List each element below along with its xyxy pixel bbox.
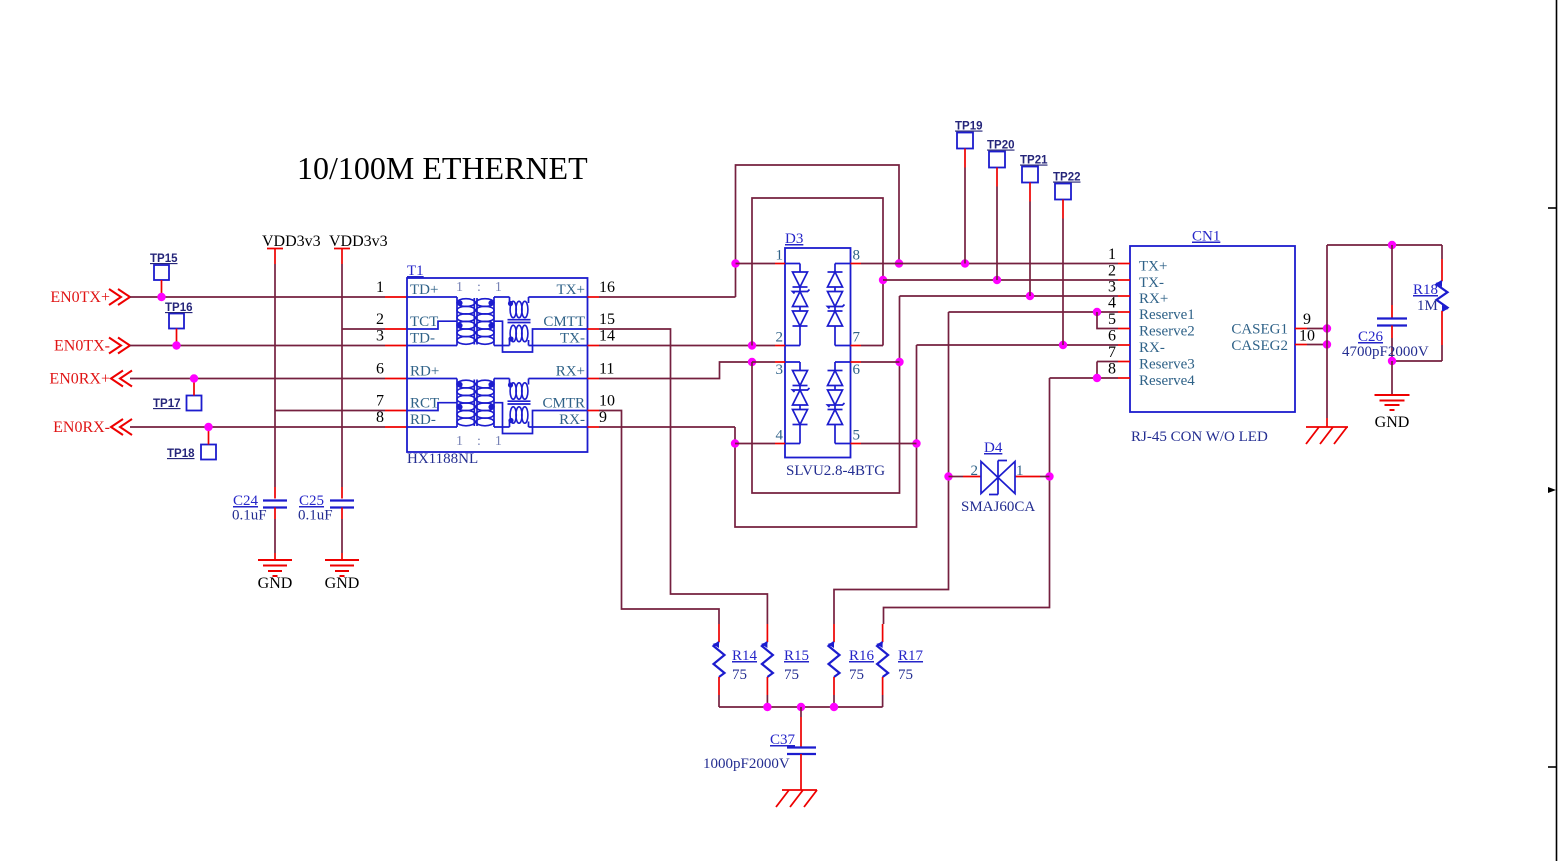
pin 6 stub T1	[385, 378, 407, 380]
junction C37 top	[797, 703, 805, 711]
svg-text:R16: R16	[849, 648, 875, 664]
svg-text:3: 3	[1108, 279, 1116, 296]
wire CASEG1	[1307, 328, 1327, 330]
TP15 stub	[161, 280, 163, 297]
svg-text:75: 75	[732, 667, 747, 683]
TP19 stub	[964, 149, 966, 168]
svg-text:TX-: TX-	[560, 331, 585, 347]
wire CASEG2	[1307, 344, 1327, 346]
wire to D3 pin1	[736, 263, 776, 265]
wire D4 pin2 net down to R16	[834, 312, 949, 624]
svg-text:1M: 1M	[1417, 298, 1438, 314]
TP18 stub	[208, 427, 210, 445]
svg-text:RX+: RX+	[556, 364, 585, 380]
svg-text:R18: R18	[1413, 282, 1438, 298]
wire C26 to bottom	[1391, 338, 1393, 361]
pin 4 stub CN1	[1118, 311, 1130, 313]
pin 2 stub D4	[963, 476, 981, 478]
wire RX- to CN1 pin6	[917, 344, 1119, 346]
svg-text:4: 4	[776, 428, 784, 444]
T1 centre tap jog	[494, 321, 588, 352]
svg-text:TCT: TCT	[410, 314, 438, 330]
wire from D4 pin1	[1040, 476, 1050, 478]
R17 top stub	[882, 624, 884, 642]
pin 5 stub CN1	[1118, 328, 1130, 330]
T1 core	[474, 298, 477, 345]
pin 2 stub CN1	[1118, 279, 1130, 281]
wire TX+ loop over D3	[736, 165, 900, 297]
junction TX+ loop / CN1 row	[895, 259, 903, 267]
phase dots	[457, 382, 462, 387]
svg-text:Reserve4: Reserve4	[1139, 373, 1195, 389]
ground stub	[274, 553, 276, 560]
svg-text:TP17: TP17	[153, 398, 181, 410]
wire C25 to ground	[341, 519, 343, 553]
pin stub T1 right	[588, 426, 600, 428]
pin stub T1 right	[588, 328, 600, 330]
wire EN0RX- row	[130, 426, 385, 428]
svg-text:16: 16	[599, 279, 615, 296]
svg-text:75: 75	[784, 667, 799, 683]
wire TP21 down	[1029, 202, 1031, 297]
svg-text:TP18: TP18	[167, 448, 195, 460]
port arrow EN0TX+	[109, 289, 130, 305]
svg-text:8: 8	[376, 409, 384, 426]
test point TP21	[1022, 167, 1038, 183]
capacitor C25 top stub	[341, 487, 343, 499]
svg-text:4: 4	[1108, 295, 1116, 312]
junction TP19	[961, 259, 969, 267]
wire D4 pin1 net down to R17	[884, 378, 1050, 624]
chassis ground symbol right	[1306, 427, 1348, 444]
wire resistor bottom bus	[719, 706, 883, 708]
TVS array D3 body	[785, 248, 851, 458]
wire D3 pin6	[861, 361, 900, 363]
wire to D4 pin2	[949, 476, 964, 478]
port arrow EN0RX+	[111, 371, 132, 387]
svg-text:1 : 1: 1 : 1	[456, 280, 502, 295]
junction R16 bottom	[830, 703, 838, 711]
R17 bottom wire	[882, 695, 884, 707]
wire to GND	[1391, 361, 1393, 395]
svg-text:10/100M ETHERNET: 10/100M ETHERNET	[297, 150, 588, 186]
wire RX+ loop under D3	[752, 296, 900, 493]
svg-text:TD-: TD-	[410, 331, 435, 347]
svg-text:EN0RX-: EN0RX-	[53, 419, 110, 436]
T1 winding right	[494, 297, 510, 346]
junction TP16/EN0TX-	[172, 341, 180, 349]
R17 bottom stub	[882, 677, 884, 695]
D4 symbol	[981, 461, 1015, 495]
connector CN1 body	[1130, 246, 1295, 412]
wire RX- from pin9	[599, 426, 735, 428]
test point TP15	[154, 265, 169, 280]
wire VDD3v3 #1 vertical	[274, 264, 276, 487]
pin stub D3 right	[851, 263, 862, 265]
junction pin8 tie	[1093, 374, 1101, 382]
pin 2 stub T1	[385, 328, 407, 330]
junction TX+ / D3 pin1 row	[731, 259, 739, 267]
wire RX- loop under D3	[735, 345, 917, 527]
pin stub T1 right	[588, 296, 600, 298]
pin 7 stub CN1	[1118, 361, 1130, 363]
wire R18 bottom	[1441, 345, 1443, 361]
pin stub T1 right	[588, 345, 600, 347]
wire EN0RX+ row	[130, 378, 385, 380]
test point TP16	[169, 314, 184, 329]
svg-text:CASEG1: CASEG1	[1231, 322, 1288, 338]
svg-text:RX-: RX-	[559, 412, 585, 428]
ground symbol GND right	[1375, 395, 1410, 410]
pin stub T1 right	[588, 410, 600, 412]
svg-text:10: 10	[1299, 328, 1315, 345]
wire D3 pin8 to CN1 pin1	[861, 263, 1118, 265]
junction RX+ / D3 pin3	[748, 358, 756, 366]
svg-text:C37: C37	[770, 732, 796, 748]
junction TP18/EN0RX-	[204, 423, 212, 431]
R15 top stub	[766, 624, 768, 642]
junction D4 pin1	[1045, 472, 1053, 480]
capacitor C26 top stub	[1391, 305, 1393, 318]
svg-text:1: 1	[376, 279, 384, 296]
junction CASEG1	[1323, 324, 1331, 332]
pin 1 stub T1	[385, 296, 407, 298]
svg-text:VDD3v3: VDD3v3	[262, 233, 321, 250]
svg-text:Reserve3: Reserve3	[1139, 357, 1195, 373]
wire pin5 tie	[1097, 312, 1118, 329]
wire EN0TX- row	[130, 345, 385, 347]
capacitor C37 bottom stub	[800, 754, 802, 790]
junction CASEG2	[1323, 340, 1331, 348]
svg-text:0.1uF: 0.1uF	[298, 508, 333, 524]
wire CN1 pin8	[1050, 377, 1119, 379]
svg-text:RJ-45 CON W/O LED: RJ-45 CON W/O LED	[1131, 429, 1268, 445]
svg-text:TD+: TD+	[410, 282, 438, 298]
svg-text:R14: R14	[732, 648, 758, 664]
svg-text:TX+: TX+	[557, 282, 585, 298]
wire pin7/pin8 tie	[1096, 362, 1098, 379]
chassis stub	[1326, 418, 1328, 427]
ground symbol GND	[258, 560, 292, 576]
svg-text:1 : 1: 1 : 1	[456, 434, 502, 449]
svg-text:2: 2	[971, 463, 979, 479]
svg-text:RCT: RCT	[410, 396, 439, 412]
svg-text:7: 7	[853, 330, 861, 346]
junction R15 bottom	[763, 703, 771, 711]
border tick bottom	[1548, 766, 1556, 768]
svg-text:0.1uF: 0.1uF	[232, 508, 267, 524]
R16 bottom stub	[833, 677, 835, 695]
capacitor C37	[787, 748, 816, 755]
capacitor C26 bottom stub	[1391, 326, 1393, 339]
svg-text:7: 7	[1108, 344, 1116, 361]
capacitor C24 bottom stub	[274, 508, 276, 520]
svg-text:75: 75	[849, 667, 864, 683]
border tick top	[1548, 207, 1556, 209]
wire case net top	[1327, 244, 1442, 246]
power symbol VDD3v3 #2	[334, 249, 350, 265]
phase dots	[457, 300, 462, 305]
TP20 stub	[996, 168, 998, 187]
wire CMTR to R14	[599, 411, 719, 625]
svg-text:6: 6	[1108, 328, 1116, 345]
R16 top stub	[833, 624, 835, 642]
chassis ground symbol bottom	[776, 790, 817, 807]
svg-text:2: 2	[376, 311, 384, 328]
D3 diodes top-left	[785, 264, 851, 346]
wire TP20 down	[996, 187, 998, 281]
svg-text:TP20: TP20	[987, 140, 1015, 152]
svg-text:6: 6	[376, 361, 384, 378]
svg-text:1000pF2000V: 1000pF2000V	[703, 756, 790, 772]
svg-text:10: 10	[599, 393, 615, 410]
R16 bottom wire	[833, 695, 835, 707]
junction D4 pin2	[944, 472, 952, 480]
junction TP21	[1026, 292, 1034, 300]
svg-text:CASEG2: CASEG2	[1231, 338, 1288, 354]
svg-text:TP15: TP15	[150, 253, 178, 265]
wire to D3 pin4	[735, 443, 775, 445]
svg-text:R17: R17	[898, 648, 924, 664]
svg-text:14: 14	[599, 328, 615, 345]
ground symbol GND	[325, 560, 359, 576]
svg-text:9: 9	[599, 409, 607, 426]
test point TP22	[1055, 184, 1071, 200]
pin stub D3 right	[851, 361, 862, 363]
svg-text:1: 1	[1108, 246, 1116, 263]
svg-text:TX-: TX-	[1139, 275, 1164, 291]
wire TCT to VDD3v3	[342, 328, 385, 330]
R14 top stub	[718, 624, 720, 642]
pin 7 stub T1	[385, 410, 407, 412]
capacitor C25 bottom stub	[341, 508, 343, 520]
T1 winding left (TD+/TCT/TD-)	[407, 297, 457, 346]
R15 bottom stub	[766, 677, 768, 695]
svg-text:TP19: TP19	[955, 121, 983, 133]
svg-text:GND: GND	[1375, 414, 1410, 431]
svg-text:TX+: TX+	[1139, 259, 1167, 275]
T1 centre tap jog	[494, 403, 588, 434]
svg-text:75: 75	[898, 667, 913, 683]
svg-text:RX+: RX+	[1139, 291, 1168, 307]
test point TP18	[201, 445, 216, 460]
svg-text:SLVU2.8-4BTG: SLVU2.8-4BTG	[786, 463, 885, 479]
svg-text:TP21: TP21	[1020, 155, 1048, 167]
svg-text:4700pF2000V: 4700pF2000V	[1342, 344, 1429, 360]
T1 common-mode choke	[508, 379, 588, 428]
TP21 stub	[1029, 183, 1031, 202]
capacitor C25	[330, 501, 354, 508]
test point TP20	[989, 152, 1005, 168]
wire case net vertical	[1326, 245, 1328, 418]
capacitor C24	[263, 501, 287, 508]
pin 8 stub T1	[385, 426, 407, 428]
svg-text:11: 11	[599, 361, 614, 378]
wire to R18	[1441, 245, 1443, 259]
R18 bottom stub	[1441, 311, 1443, 345]
svg-text:6: 6	[853, 362, 861, 378]
svg-text:EN0TX-: EN0TX-	[54, 338, 110, 355]
svg-text:C26: C26	[1358, 329, 1384, 345]
junction TP17/EN0RX+	[190, 374, 198, 382]
svg-text:GND: GND	[325, 575, 360, 592]
pin 6 stub CN1	[1118, 344, 1130, 346]
wire TX- to D3 pin2	[599, 345, 775, 347]
svg-text:CMTR: CMTR	[542, 396, 585, 412]
wire TX- to CN1 pin2	[883, 279, 1118, 281]
wire to C26	[1391, 245, 1393, 305]
junction C26 bottom	[1388, 357, 1396, 365]
pin stub D3 left	[775, 443, 785, 445]
TP17 stub	[193, 379, 195, 396]
svg-text:8: 8	[853, 248, 861, 264]
pin 1 stub CN1	[1118, 263, 1130, 265]
border arrow	[1548, 487, 1556, 493]
svg-text:5: 5	[1108, 311, 1116, 328]
D3 diodes bottom-right	[834, 362, 836, 444]
ground stub	[341, 553, 343, 560]
wire TP22 down	[1062, 219, 1064, 346]
junction pin4/pin5 tie	[1093, 308, 1101, 316]
svg-text:2: 2	[1108, 263, 1116, 280]
wire RCT to VDD3v3	[275, 410, 385, 412]
junction TP15/EN0TX+	[157, 293, 165, 301]
junction RX+ / D3 pin6	[895, 358, 903, 366]
wire to CN1 pin4	[949, 311, 1119, 313]
sheet border line	[1556, 0, 1558, 861]
T1 winding left (RD+/RCT/RD-)	[407, 379, 457, 428]
svg-text:CMTT: CMTT	[543, 314, 585, 330]
R14 bottom stub	[718, 677, 720, 695]
svg-text:Reserve1: Reserve1	[1139, 307, 1195, 323]
wire TX- inner loop over D3	[752, 198, 883, 346]
svg-text:3: 3	[376, 328, 384, 345]
pin stub T1 right	[588, 378, 600, 380]
pin stub D3 right	[851, 345, 862, 347]
pin stub D3 right	[851, 443, 862, 445]
svg-text:TP16: TP16	[165, 302, 193, 314]
svg-text:SMAJ60CA: SMAJ60CA	[961, 499, 1035, 515]
pin 9 stub CN1	[1295, 328, 1307, 330]
TP22 stub	[1062, 200, 1064, 219]
junction TX- / inner loop	[748, 341, 756, 349]
wire D3 pin7	[861, 345, 883, 347]
svg-text:EN0TX+: EN0TX+	[50, 289, 110, 306]
wire C26/R18 bottom	[1392, 360, 1442, 362]
wire D3 pin5	[861, 443, 917, 445]
port arrow EN0RX-	[111, 419, 132, 435]
wire CMTT to R15	[599, 329, 767, 624]
power symbol VDD3v3 #1	[267, 249, 283, 265]
wire to D3 pin3	[752, 361, 775, 363]
TP16 stub	[176, 329, 178, 346]
capacitor C26	[1377, 319, 1407, 326]
R15 bottom wire	[766, 695, 768, 707]
wire RX+ from pin11	[599, 362, 752, 379]
svg-text:D3: D3	[785, 231, 803, 247]
svg-text:7: 7	[376, 393, 384, 410]
wire VDD3v3 #2 vertical	[341, 264, 343, 487]
transformer T1 body	[407, 278, 588, 452]
wire EN0TX+ row	[130, 296, 385, 298]
svg-text:RD-: RD-	[410, 412, 436, 428]
pin stub D3 left	[775, 345, 785, 347]
wire TX+ from pin16	[599, 296, 736, 298]
capacitor C24 top stub	[274, 487, 276, 499]
svg-text:HX1188NL: HX1188NL	[407, 451, 478, 467]
svg-text:GND: GND	[258, 575, 293, 592]
svg-text:1: 1	[776, 248, 784, 264]
svg-text:D4: D4	[984, 440, 1003, 456]
svg-text:9: 9	[1303, 311, 1311, 328]
R14 bottom wire	[718, 695, 720, 707]
junction RX- / D3 pin5	[912, 439, 920, 447]
R18 top stub	[1441, 259, 1443, 281]
pin 8 stub CN1	[1118, 377, 1130, 379]
pin 3 stub CN1	[1118, 295, 1130, 297]
wire C24 to ground	[274, 519, 276, 553]
pin 3 stub T1	[385, 345, 407, 347]
port arrow EN0TX-	[109, 338, 130, 354]
svg-text:3: 3	[776, 362, 784, 378]
svg-text:T1: T1	[407, 263, 424, 279]
wire TP19 down	[964, 168, 966, 264]
D3 diodes bottom-left	[785, 362, 851, 444]
svg-text:EN0RX+: EN0RX+	[49, 371, 110, 388]
junction TX- loop / CN1 pin2 row	[879, 276, 887, 284]
svg-text:VDD3v3: VDD3v3	[329, 233, 388, 250]
junction RX- / D3 pin4	[731, 439, 739, 447]
svg-text:R15: R15	[784, 648, 809, 664]
svg-text:Reserve2: Reserve2	[1139, 324, 1195, 340]
T1 core	[474, 380, 477, 427]
pin 1 stub D4	[1015, 476, 1040, 478]
junction TP20	[993, 276, 1001, 284]
T1 winding right	[494, 379, 510, 428]
capacitor C37 top stub	[800, 717, 802, 747]
junction TP22	[1059, 341, 1067, 349]
svg-text:1: 1	[1016, 463, 1024, 479]
junction C26 top	[1388, 241, 1396, 249]
pin stub D3 left	[775, 263, 785, 265]
svg-text:RD+: RD+	[410, 364, 439, 380]
D3 diodes top-right	[834, 264, 836, 346]
test point TP19	[957, 133, 973, 149]
T1 common-mode choke	[508, 297, 588, 346]
svg-text:TP22: TP22	[1053, 172, 1081, 184]
svg-text:RX-: RX-	[1139, 340, 1165, 356]
pin 10 stub CN1	[1295, 344, 1307, 346]
svg-text:5: 5	[853, 428, 861, 444]
svg-text:15: 15	[599, 311, 615, 328]
wire bus to C37	[800, 707, 802, 717]
wire RX+ to CN1 pin3	[900, 295, 1119, 297]
svg-text:2: 2	[776, 330, 784, 346]
wire CN1 pin7	[1097, 361, 1118, 363]
test point TP17	[187, 396, 202, 411]
svg-text:8: 8	[1108, 361, 1116, 378]
pin stub D3 left	[775, 361, 785, 363]
svg-text:CN1: CN1	[1192, 229, 1220, 245]
